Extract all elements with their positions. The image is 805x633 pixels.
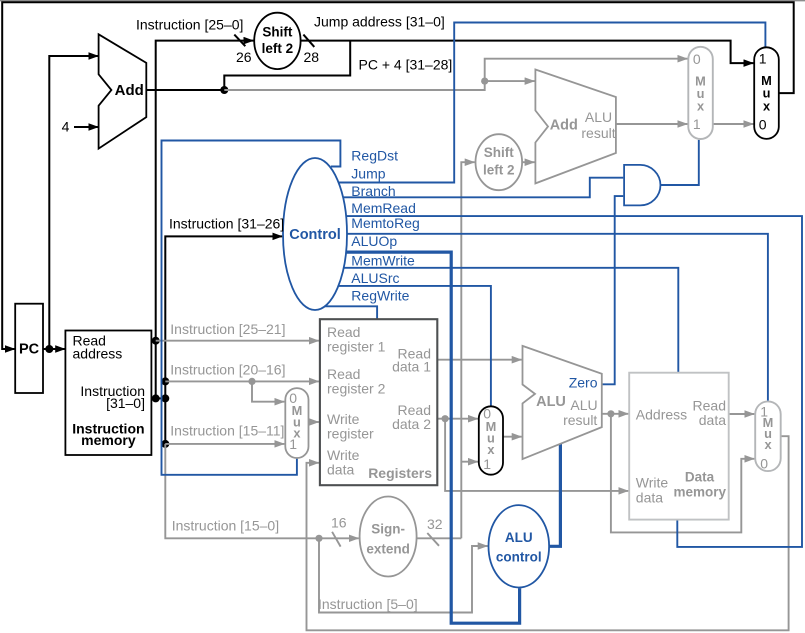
svg-text:Read: Read (693, 398, 726, 414)
wire: PC source loop from jump Mux output along top and left edge into PC (2, 2, 794, 349)
wire: Instruction [20-16] branch into RegDst Mux input 0 (252, 381, 284, 401)
svg-text:address: address (73, 345, 123, 361)
wire: ALU control output up into ALU bottom (549, 444, 561, 547)
svg-text:PC: PC (19, 342, 40, 358)
wire: Shift left 2 (gray) output into branch adder bottom input (522, 161, 535, 163)
svg-text:x: x (697, 98, 705, 113)
svg-text:ALU: ALU (536, 394, 566, 410)
wire: branch adder ALU result to branch Mux input 1 (616, 123, 688, 125)
frame: top gray border line (0, 0, 805, 2)
wire: Instruction [15-11] into RegDst Mux input 1 (165, 443, 284, 445)
svg-text:Instruction [15–11]: Instruction [15–11] (170, 422, 284, 438)
wire: Jump signal to jump Mux select (339, 23, 766, 183)
svg-text:[31–0]: [31–0] (106, 395, 145, 411)
wire: sign-extend branch into ALUSrc Mux input 1 (461, 461, 478, 463)
node: bus junction 2 (161, 394, 169, 402)
wire: ALUSrc signal to ALUSrc Mux select (338, 286, 491, 406)
wire: ALU result into data memory Address (602, 413, 629, 415)
AND gate (branch) (624, 165, 660, 206)
svg-text:0: 0 (760, 455, 768, 471)
svg-text:Address: Address (636, 407, 687, 423)
svg-text:Shift: Shift (262, 24, 292, 39)
svg-text:Jump address [31–0]: Jump address [31–0] (314, 13, 445, 29)
shift left 2 (jump) (254, 13, 300, 69)
bus width slash 32 (427, 533, 439, 546)
svg-text:Write: Write (636, 475, 669, 491)
node: Instruction [15-0] junction (315, 535, 322, 542)
node: Instruction [25-21] tap (152, 337, 160, 345)
node: Instruction [15-11] tap (161, 440, 169, 448)
wire: Sign-extend output (32) (417, 537, 462, 539)
wire: PC value up to Add top input (49, 56, 98, 349)
instruction memory (65, 331, 151, 456)
wire: PC+4 into branch adder top input (485, 80, 535, 82)
wire: sign-extend output up to Shift left 2 (gray) input (461, 162, 474, 538)
adder U-branch Add (gray) (535, 70, 616, 184)
mux RegDst (write register) (285, 388, 308, 458)
wire: MemtoReg Mux output around bottom into Registers Write data (307, 436, 789, 630)
wire: Read data 2 to data memory Write data (445, 419, 628, 491)
svg-text:0: 0 (693, 51, 701, 67)
svg-text:28: 28 (304, 49, 320, 65)
svg-text:x: x (764, 437, 772, 452)
svg-text:1: 1 (759, 50, 767, 66)
wire: instruction bus vertical and Instruction [25-0] into Shift left 2 (156, 41, 254, 399)
svg-text:1: 1 (693, 116, 701, 132)
wire: MemRead signal around right side into data memory bottom (346, 216, 802, 547)
register PC (15, 304, 43, 393)
wire: branch Mux output to jump Mux input 0 (713, 123, 754, 125)
mux branch (PCSrc) (688, 47, 713, 139)
svg-text:4: 4 (62, 119, 70, 135)
svg-text:RegDst: RegDst (351, 147, 398, 163)
ALU control unit (489, 505, 550, 587)
wire: Instruction [25-21] to Read register 1 (156, 340, 319, 342)
svg-text:16: 16 (331, 515, 347, 531)
svg-text:left 2: left 2 (262, 41, 294, 56)
svg-text:Control: Control (289, 227, 341, 243)
svg-text:Instruction [20–16]: Instruction [20–16] (170, 362, 285, 378)
svg-text:register 2: register 2 (327, 380, 386, 396)
wire: Read data 1 into ALU top input (437, 359, 521, 361)
wire: constant 4 into Add bottom input (74, 126, 98, 128)
wire: Read data 2 into ALUSrc Mux input 0 (437, 418, 478, 420)
ALU U-main (523, 346, 602, 459)
wire: ALU result around to MemtoReg Mux input 0 (611, 414, 755, 533)
wire: Instruction [20-16] to Read register 2 (165, 380, 319, 382)
svg-text:Add: Add (550, 117, 578, 133)
svg-text:result: result (581, 125, 615, 141)
wire: instruction memory output to bus verticals (151, 397, 165, 399)
control unit U-Control (283, 158, 347, 310)
svg-text:ALUSrc: ALUSrc (351, 270, 399, 286)
wire: PC+4 (gray) to branch Mux input 0 (224, 59, 687, 90)
svg-text:1: 1 (289, 436, 297, 452)
svg-text:MemWrite: MemWrite (351, 252, 415, 268)
svg-text:PC + 4 [31–28]: PC + 4 [31–28] (359, 57, 453, 73)
svg-text:0: 0 (759, 117, 767, 133)
node: PC+4 branch junction (481, 78, 488, 85)
svg-text:ALUOp: ALUOp (351, 233, 397, 249)
svg-text:Branch: Branch (351, 183, 395, 199)
bus width slash 16 (332, 532, 341, 547)
node: bus junction 1 (152, 394, 160, 402)
svg-text:data 1: data 1 (392, 359, 431, 375)
node: ALU result junction (607, 410, 614, 417)
wire: RegDst signal around left side to RegDst Mux select (162, 141, 341, 475)
bus width slash 28 (303, 35, 314, 47)
shift left 2 (branch, gray) (476, 134, 523, 190)
wire: RegWrite signal into Registers top (325, 306, 377, 319)
wire: ALUOp signal (2-bit) to ALU control (346, 252, 519, 623)
svg-text:Add: Add (115, 82, 144, 99)
mux ALUSrc (479, 406, 503, 474)
svg-text:MemRead: MemRead (351, 200, 416, 216)
node: PC output junction (45, 345, 53, 353)
wire: Add output PC+4 (black part) (146, 89, 224, 91)
svg-text:memory: memory (81, 432, 136, 448)
svg-text:data: data (699, 412, 726, 428)
svg-text:data: data (636, 489, 663, 505)
svg-text:RegWrite: RegWrite (351, 288, 409, 304)
data memory (629, 373, 729, 520)
wire: MemtoReg signal to MemtoReg Mux select (347, 234, 768, 401)
bus width slash 26 (234, 35, 245, 47)
wire: PC+4 [31-28] up to jump address merge (224, 41, 350, 90)
svg-text:memory: memory (674, 485, 727, 500)
svg-text:Shift: Shift (484, 145, 514, 160)
wire: Zero flag from ALU into AND gate (602, 196, 624, 384)
svg-text:left 2: left 2 (483, 163, 515, 178)
mux jump (754, 47, 779, 139)
svg-text:register 1: register 1 (327, 338, 386, 354)
wire: RegDst Mux output into Write register (309, 421, 319, 423)
svg-text:Write: Write (327, 447, 360, 463)
node: Instruction [20-16] junction (248, 378, 255, 385)
registers file (320, 319, 437, 485)
sign extend unit (360, 497, 417, 577)
svg-text:Instruction [25–21]: Instruction [25–21] (170, 321, 285, 337)
wire: Instruction [5-0] into ALU control (319, 538, 488, 612)
svg-text:32: 32 (427, 516, 443, 532)
svg-text:x: x (487, 442, 495, 457)
wire: MemWrite signal into data memory top (344, 268, 679, 374)
svg-text:Data: Data (685, 470, 715, 485)
svg-text:Zero: Zero (569, 375, 598, 391)
svg-text:extend: extend (366, 541, 410, 556)
svg-text:result: result (563, 412, 597, 428)
svg-text:1: 1 (483, 456, 491, 472)
node: PC+4 junction (220, 86, 228, 94)
adder Add (PC+4) (99, 34, 147, 148)
svg-text:ALU: ALU (585, 109, 612, 125)
node: Instruction [20-16] tap (161, 377, 169, 385)
mux MemtoReg (755, 401, 781, 471)
svg-text:Sign-: Sign- (371, 522, 405, 537)
wire: data memory Read data into MemtoReg Mux input 1 (729, 413, 755, 415)
svg-text:data 2: data 2 (392, 416, 431, 432)
node: Read data 2 junction (442, 415, 449, 422)
svg-text:Registers: Registers (368, 465, 432, 481)
svg-text:ALU: ALU (570, 397, 597, 413)
svg-text:ALU: ALU (505, 530, 533, 545)
wire: Branch signal into AND gate (343, 178, 623, 198)
svg-text:Instruction [5–0]: Instruction [5–0] (318, 596, 418, 612)
wire: Instruction [15-0] into Sign-extend (165, 444, 358, 538)
wire: ALUSrc Mux output into ALU bottom input (503, 436, 522, 438)
wire: PC output to instruction memory read address (43, 348, 65, 350)
svg-text:x: x (763, 98, 771, 113)
svg-text:Instruction [31–26]: Instruction [31–26] (169, 215, 284, 231)
svg-text:data: data (327, 462, 354, 478)
svg-text:MemtoReg: MemtoReg (351, 215, 419, 231)
wire: jump address [31-0] from Shift left 2 to jump Mux input 1 (301, 41, 754, 64)
wire: instruction bus second vertical, Instruction [31-26] into Control (165, 236, 282, 444)
svg-text:Jump: Jump (351, 166, 385, 182)
svg-text:Instruction [25–0]: Instruction [25–0] (136, 16, 243, 32)
wire: AND gate output PCSrc to branch Mux select (660, 140, 698, 185)
svg-text:control: control (496, 549, 542, 564)
svg-text:Instruction [15–0]: Instruction [15–0] (172, 517, 279, 533)
svg-text:register: register (327, 425, 374, 441)
svg-text:26: 26 (236, 49, 252, 65)
